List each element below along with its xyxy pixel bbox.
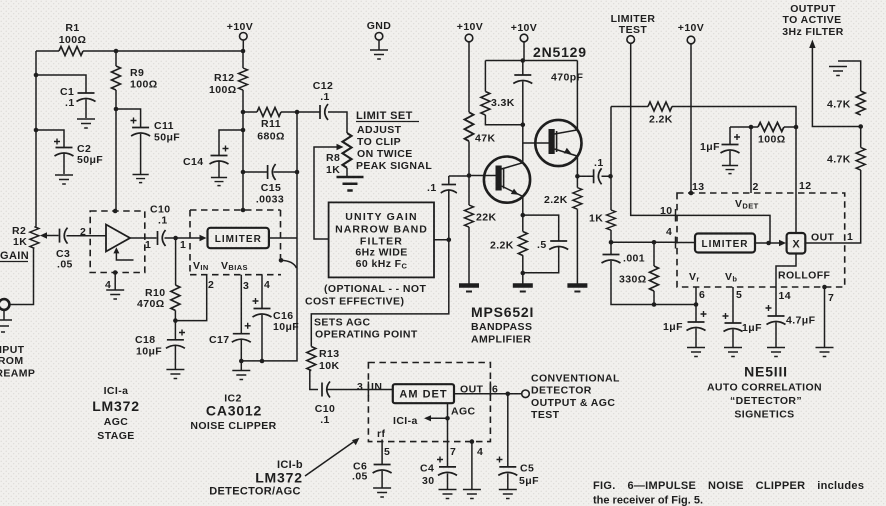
svg-text:(OPTIONAL - - NOT: (OPTIONAL - - NOT bbox=[324, 283, 426, 295]
svg-text:6Hz WIDE: 6Hz WIDE bbox=[355, 247, 407, 259]
svg-text:330Ω: 330Ω bbox=[619, 274, 647, 286]
svg-text:R12: R12 bbox=[214, 72, 234, 84]
svg-text:LIMIT SET: LIMIT SET bbox=[356, 110, 413, 122]
svg-text:GAIN: GAIN bbox=[0, 250, 29, 262]
svg-text:2.2K: 2.2K bbox=[544, 194, 568, 206]
svg-text:30: 30 bbox=[422, 475, 434, 487]
svg-text:+10V: +10V bbox=[457, 21, 483, 33]
svg-text:ON TWICE: ON TWICE bbox=[357, 148, 413, 160]
svg-text:+10V: +10V bbox=[511, 22, 537, 34]
svg-text:4: 4 bbox=[264, 279, 270, 291]
svg-text:3: 3 bbox=[357, 381, 363, 393]
svg-text:7: 7 bbox=[828, 292, 834, 304]
svg-text:LIMITER: LIMITER bbox=[215, 234, 262, 245]
svg-text:AM DET: AM DET bbox=[399, 389, 447, 401]
svg-text:CA3012: CA3012 bbox=[206, 403, 262, 419]
svg-text:R1: R1 bbox=[65, 22, 79, 34]
svg-text:NE5III: NE5III bbox=[744, 364, 788, 380]
svg-text:the receiver of Fig. 5.: the receiver of Fig. 5. bbox=[593, 495, 703, 506]
svg-text:C17: C17 bbox=[209, 334, 229, 346]
svg-text:50μF: 50μF bbox=[154, 132, 180, 144]
svg-text:rf: rf bbox=[377, 428, 385, 440]
svg-text:22K: 22K bbox=[476, 212, 496, 224]
svg-text:4.7K: 4.7K bbox=[827, 154, 851, 166]
svg-text:SIGNETICS: SIGNETICS bbox=[734, 409, 794, 421]
svg-text:ICI-a: ICI-a bbox=[393, 415, 418, 427]
svg-text:4.7μF: 4.7μF bbox=[786, 315, 816, 327]
svg-text:AMPLIFIER: AMPLIFIER bbox=[471, 334, 531, 346]
svg-text:ADJUST: ADJUST bbox=[357, 124, 402, 136]
svg-text:100Ω: 100Ω bbox=[59, 34, 87, 46]
svg-text:4: 4 bbox=[477, 446, 483, 458]
svg-text:R8: R8 bbox=[326, 152, 340, 164]
svg-text:“DETECTOR”: “DETECTOR” bbox=[730, 395, 802, 407]
svg-text:ROLLOFF: ROLLOFF bbox=[778, 270, 831, 282]
svg-text:OPERATING POINT: OPERATING POINT bbox=[315, 329, 418, 341]
svg-text:1K: 1K bbox=[589, 213, 603, 225]
svg-text:R13: R13 bbox=[319, 348, 339, 360]
svg-text:.1: .1 bbox=[320, 91, 330, 103]
svg-text:680Ω: 680Ω bbox=[257, 131, 285, 143]
svg-text:2N5129: 2N5129 bbox=[533, 44, 587, 60]
svg-text:AGC: AGC bbox=[104, 416, 129, 428]
svg-text:.1: .1 bbox=[158, 215, 168, 227]
svg-text:C15: C15 bbox=[261, 182, 281, 194]
svg-text:C18: C18 bbox=[135, 334, 155, 346]
svg-text:10μF: 10μF bbox=[136, 346, 162, 358]
svg-text:.001: .001 bbox=[623, 253, 645, 265]
svg-text:5μF: 5μF bbox=[519, 475, 539, 487]
svg-text:OUTPUT & AGC: OUTPUT & AGC bbox=[531, 397, 615, 409]
svg-text:GND: GND bbox=[367, 20, 392, 32]
svg-text:TO CLIP: TO CLIP bbox=[357, 136, 401, 148]
svg-text:C14: C14 bbox=[183, 156, 203, 168]
svg-text:TEST: TEST bbox=[619, 24, 648, 36]
svg-text:NOISE CLIPPER: NOISE CLIPPER bbox=[190, 420, 276, 432]
svg-text:PEAK SIGNAL: PEAK SIGNAL bbox=[356, 160, 432, 172]
svg-text:.5: .5 bbox=[537, 239, 547, 251]
svg-text:1μF: 1μF bbox=[700, 141, 720, 153]
svg-text:2.2K: 2.2K bbox=[649, 114, 673, 126]
svg-text:PREAMP: PREAMP bbox=[0, 368, 35, 380]
svg-text:TO ACTIVE: TO ACTIVE bbox=[782, 14, 841, 26]
svg-text:.05: .05 bbox=[352, 471, 368, 483]
svg-text:C4: C4 bbox=[420, 463, 434, 475]
svg-text:1K: 1K bbox=[13, 236, 27, 248]
svg-text:.0033: .0033 bbox=[256, 194, 284, 206]
svg-text:1μF: 1μF bbox=[742, 322, 762, 334]
svg-text:C11: C11 bbox=[154, 120, 174, 132]
svg-text:12: 12 bbox=[799, 180, 811, 192]
svg-text:3.3K: 3.3K bbox=[491, 97, 515, 109]
svg-text:.1: .1 bbox=[594, 157, 604, 169]
svg-text:CONVENTIONAL: CONVENTIONAL bbox=[531, 373, 620, 385]
svg-text:2: 2 bbox=[80, 226, 86, 238]
svg-text:MPS652I: MPS652I bbox=[471, 304, 534, 320]
svg-text:OUT: OUT bbox=[460, 384, 484, 396]
svg-text:14: 14 bbox=[779, 290, 791, 302]
svg-text:X: X bbox=[792, 239, 800, 251]
svg-text:.1: .1 bbox=[65, 97, 75, 109]
svg-text:10: 10 bbox=[660, 205, 672, 217]
svg-text:1K: 1K bbox=[326, 164, 340, 176]
svg-text:LM372: LM372 bbox=[255, 470, 303, 486]
svg-text:2.2K: 2.2K bbox=[490, 240, 514, 252]
svg-text:2: 2 bbox=[208, 279, 214, 291]
svg-text:+10V: +10V bbox=[227, 21, 253, 33]
svg-text:3: 3 bbox=[243, 280, 249, 292]
svg-text:5: 5 bbox=[384, 446, 390, 458]
svg-text:6: 6 bbox=[492, 384, 498, 396]
svg-text:.1: .1 bbox=[427, 182, 437, 194]
svg-text:FROM: FROM bbox=[0, 355, 24, 367]
svg-text:3Hz FILTER: 3Hz FILTER bbox=[782, 26, 844, 38]
svg-text:DETECTOR/AGC: DETECTOR/AGC bbox=[209, 486, 300, 498]
svg-text:10μF: 10μF bbox=[273, 321, 299, 333]
svg-text:DETECTOR: DETECTOR bbox=[531, 385, 592, 397]
svg-text:LIMITER: LIMITER bbox=[702, 239, 749, 250]
svg-text:470Ω: 470Ω bbox=[137, 298, 165, 310]
svg-text:100Ω: 100Ω bbox=[758, 134, 786, 146]
svg-text:OUT: OUT bbox=[811, 232, 835, 244]
svg-text:BANDPASS: BANDPASS bbox=[471, 321, 532, 333]
svg-text:10K: 10K bbox=[319, 360, 339, 372]
svg-text:1: 1 bbox=[145, 239, 151, 251]
svg-text:R11: R11 bbox=[261, 118, 281, 130]
svg-text:5: 5 bbox=[736, 289, 742, 301]
svg-text:TEST: TEST bbox=[531, 409, 560, 421]
svg-text:50μF: 50μF bbox=[77, 154, 103, 166]
svg-text:AUTO CORRELATION: AUTO CORRELATION bbox=[707, 382, 822, 394]
svg-text:4: 4 bbox=[105, 279, 111, 291]
svg-text:47K: 47K bbox=[475, 133, 495, 145]
svg-text:UNITY GAIN: UNITY GAIN bbox=[345, 211, 417, 223]
svg-text:4.7K: 4.7K bbox=[827, 99, 851, 111]
svg-text:13: 13 bbox=[692, 181, 704, 193]
svg-text:470pF: 470pF bbox=[551, 72, 584, 84]
svg-text:+10V: +10V bbox=[678, 22, 704, 34]
svg-text:1μF: 1μF bbox=[663, 321, 683, 333]
svg-text:STAGE: STAGE bbox=[97, 430, 134, 442]
svg-text:LM372: LM372 bbox=[92, 398, 140, 414]
svg-text:SETS AGC: SETS AGC bbox=[314, 317, 371, 329]
svg-text:4: 4 bbox=[666, 226, 672, 238]
svg-text:100Ω: 100Ω bbox=[209, 84, 237, 96]
svg-text:NARROW BAND: NARROW BAND bbox=[335, 224, 428, 236]
svg-text:7: 7 bbox=[450, 446, 456, 458]
svg-text:1: 1 bbox=[180, 239, 186, 251]
svg-text:60 kHz FC: 60 kHz FC bbox=[356, 258, 408, 271]
svg-text:.1: .1 bbox=[320, 414, 330, 426]
svg-text:COST EFFECTIVE): COST EFFECTIVE) bbox=[305, 296, 404, 308]
svg-text:6: 6 bbox=[699, 289, 705, 301]
svg-text:FIG. 6—IMPULSE NOISE CLIPPER i: FIG. 6—IMPULSE NOISE CLIPPER includes bbox=[593, 480, 864, 492]
svg-text:C5: C5 bbox=[520, 463, 534, 475]
svg-text:1: 1 bbox=[847, 231, 853, 243]
svg-text:2: 2 bbox=[753, 181, 759, 193]
svg-text:AGC: AGC bbox=[451, 406, 476, 418]
svg-text:.05: .05 bbox=[57, 259, 73, 271]
svg-text:ICI-a: ICI-a bbox=[104, 385, 129, 397]
svg-text:100Ω: 100Ω bbox=[130, 79, 158, 91]
svg-text:R9: R9 bbox=[130, 67, 144, 79]
svg-text:IN: IN bbox=[371, 381, 382, 393]
